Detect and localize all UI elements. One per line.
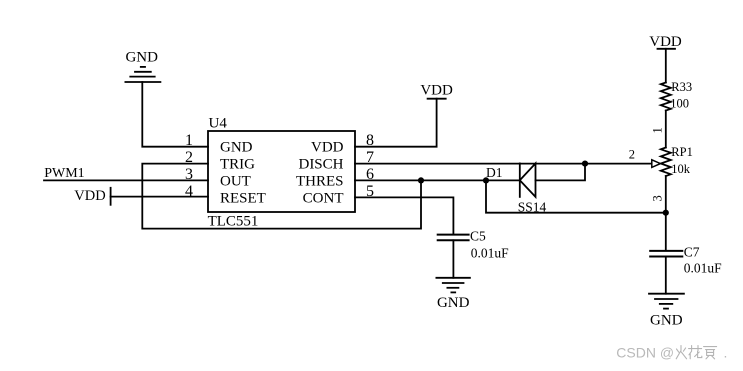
power VDD symbol top-right bbox=[658, 48, 676, 50]
svg-text:U4: U4 bbox=[209, 116, 228, 132]
wire C5 to ground bbox=[452, 240, 454, 277]
wire PWM1 to pin 3 OUT bbox=[44, 179, 208, 181]
junction dot RP1 pin3 / C7 bbox=[663, 210, 669, 216]
wire pin 7 DISCH to RP1 wiper bbox=[355, 163, 652, 165]
svg-text:100: 100 bbox=[670, 97, 689, 111]
wire pin 5 CONT to C5 bbox=[355, 197, 453, 233]
svg-text:R33: R33 bbox=[671, 80, 692, 94]
svg-text:GND: GND bbox=[125, 49, 158, 65]
wire DISCH branch down to diode anode bbox=[536, 164, 586, 181]
svg-text:4: 4 bbox=[185, 183, 193, 200]
wire VDD port to pin 4 RESET bbox=[111, 196, 208, 198]
wire GND stem to pin 1 bbox=[142, 82, 208, 147]
wire C7 to ground bbox=[665, 257, 667, 294]
ground GND symbol below C7 bbox=[649, 294, 684, 309]
wire pin 2 TRIG to bottom link bbox=[142, 164, 421, 229]
svg-text:C5: C5 bbox=[470, 229, 486, 244]
svg-text:10k: 10k bbox=[671, 162, 691, 176]
svg-text:1: 1 bbox=[185, 132, 193, 149]
svg-text:DISCH: DISCH bbox=[298, 157, 343, 173]
junction dot DISCH branch bbox=[582, 161, 588, 167]
svg-text:D1: D1 bbox=[486, 165, 503, 180]
svg-text:GND: GND bbox=[437, 295, 470, 311]
svg-text:2: 2 bbox=[185, 149, 193, 166]
svg-text:TLC551: TLC551 bbox=[208, 214, 259, 230]
capacitor C7 plates bbox=[650, 251, 682, 257]
wire pin 6 THRES to diode cathode bbox=[355, 179, 520, 181]
svg-text:VDD: VDD bbox=[649, 34, 682, 50]
IC U4 body rectangle bbox=[208, 131, 355, 212]
svg-text:1: 1 bbox=[651, 127, 665, 133]
ground GND top-left symbol bbox=[125, 67, 160, 82]
potentiometer RP1 wiper arrow bbox=[652, 160, 661, 168]
svg-text:CSDN @: CSDN @ bbox=[616, 344, 674, 360]
svg-text:.: . bbox=[724, 344, 728, 360]
svg-text:VDD: VDD bbox=[420, 83, 453, 99]
svg-text:0.01uF: 0.01uF bbox=[684, 261, 722, 276]
resistor R33 bbox=[661, 83, 671, 111]
svg-text:RP1: RP1 bbox=[671, 145, 693, 159]
svg-text:PWM1: PWM1 bbox=[44, 166, 84, 181]
svg-text:GND: GND bbox=[220, 140, 253, 156]
ground GND symbol below C5 bbox=[436, 278, 470, 293]
diode D1 triangle bbox=[520, 163, 536, 197]
junction dot THRES branch bbox=[483, 177, 489, 183]
svg-text:3: 3 bbox=[651, 195, 665, 201]
svg-text:THRES: THRES bbox=[296, 173, 344, 189]
wire pin 8 to VDD rail bbox=[355, 99, 437, 147]
svg-text:5: 5 bbox=[366, 183, 374, 200]
svg-text:GND: GND bbox=[650, 312, 683, 328]
svg-text:6: 6 bbox=[366, 166, 374, 183]
wire R33 to RP1 pin 1 bbox=[665, 111, 667, 148]
svg-text:2: 2 bbox=[629, 147, 635, 161]
potentiometer RP1 resistor body bbox=[661, 148, 671, 177]
watermark chinese glyphs bbox=[676, 346, 716, 359]
svg-text:C7: C7 bbox=[684, 245, 700, 260]
svg-text:3: 3 bbox=[185, 166, 193, 183]
svg-text:SS14: SS14 bbox=[518, 199, 547, 214]
wire THRES branch down to RP1 bottom bbox=[486, 180, 666, 212]
port VDD left bar bbox=[110, 188, 112, 205]
diode D1 cathode bar bbox=[519, 163, 521, 197]
power VDD symbol above pin 8 bbox=[428, 98, 446, 100]
junction dot TRIG/THRES link bbox=[418, 177, 424, 183]
capacitor C5 plates bbox=[438, 235, 469, 241]
svg-text:RESET: RESET bbox=[220, 190, 266, 206]
wire RP1 pin 3 down to C7 bbox=[665, 176, 667, 250]
svg-text:8: 8 bbox=[366, 132, 374, 149]
wire VDD to R33 bbox=[665, 49, 667, 83]
svg-text:OUT: OUT bbox=[220, 173, 251, 189]
svg-text:7: 7 bbox=[366, 149, 374, 166]
svg-text:CONT: CONT bbox=[303, 190, 344, 206]
svg-text:VDD: VDD bbox=[74, 188, 105, 204]
svg-text:TRIG: TRIG bbox=[220, 157, 255, 173]
svg-text:0.01uF: 0.01uF bbox=[471, 245, 509, 260]
svg-text:VDD: VDD bbox=[311, 140, 344, 156]
